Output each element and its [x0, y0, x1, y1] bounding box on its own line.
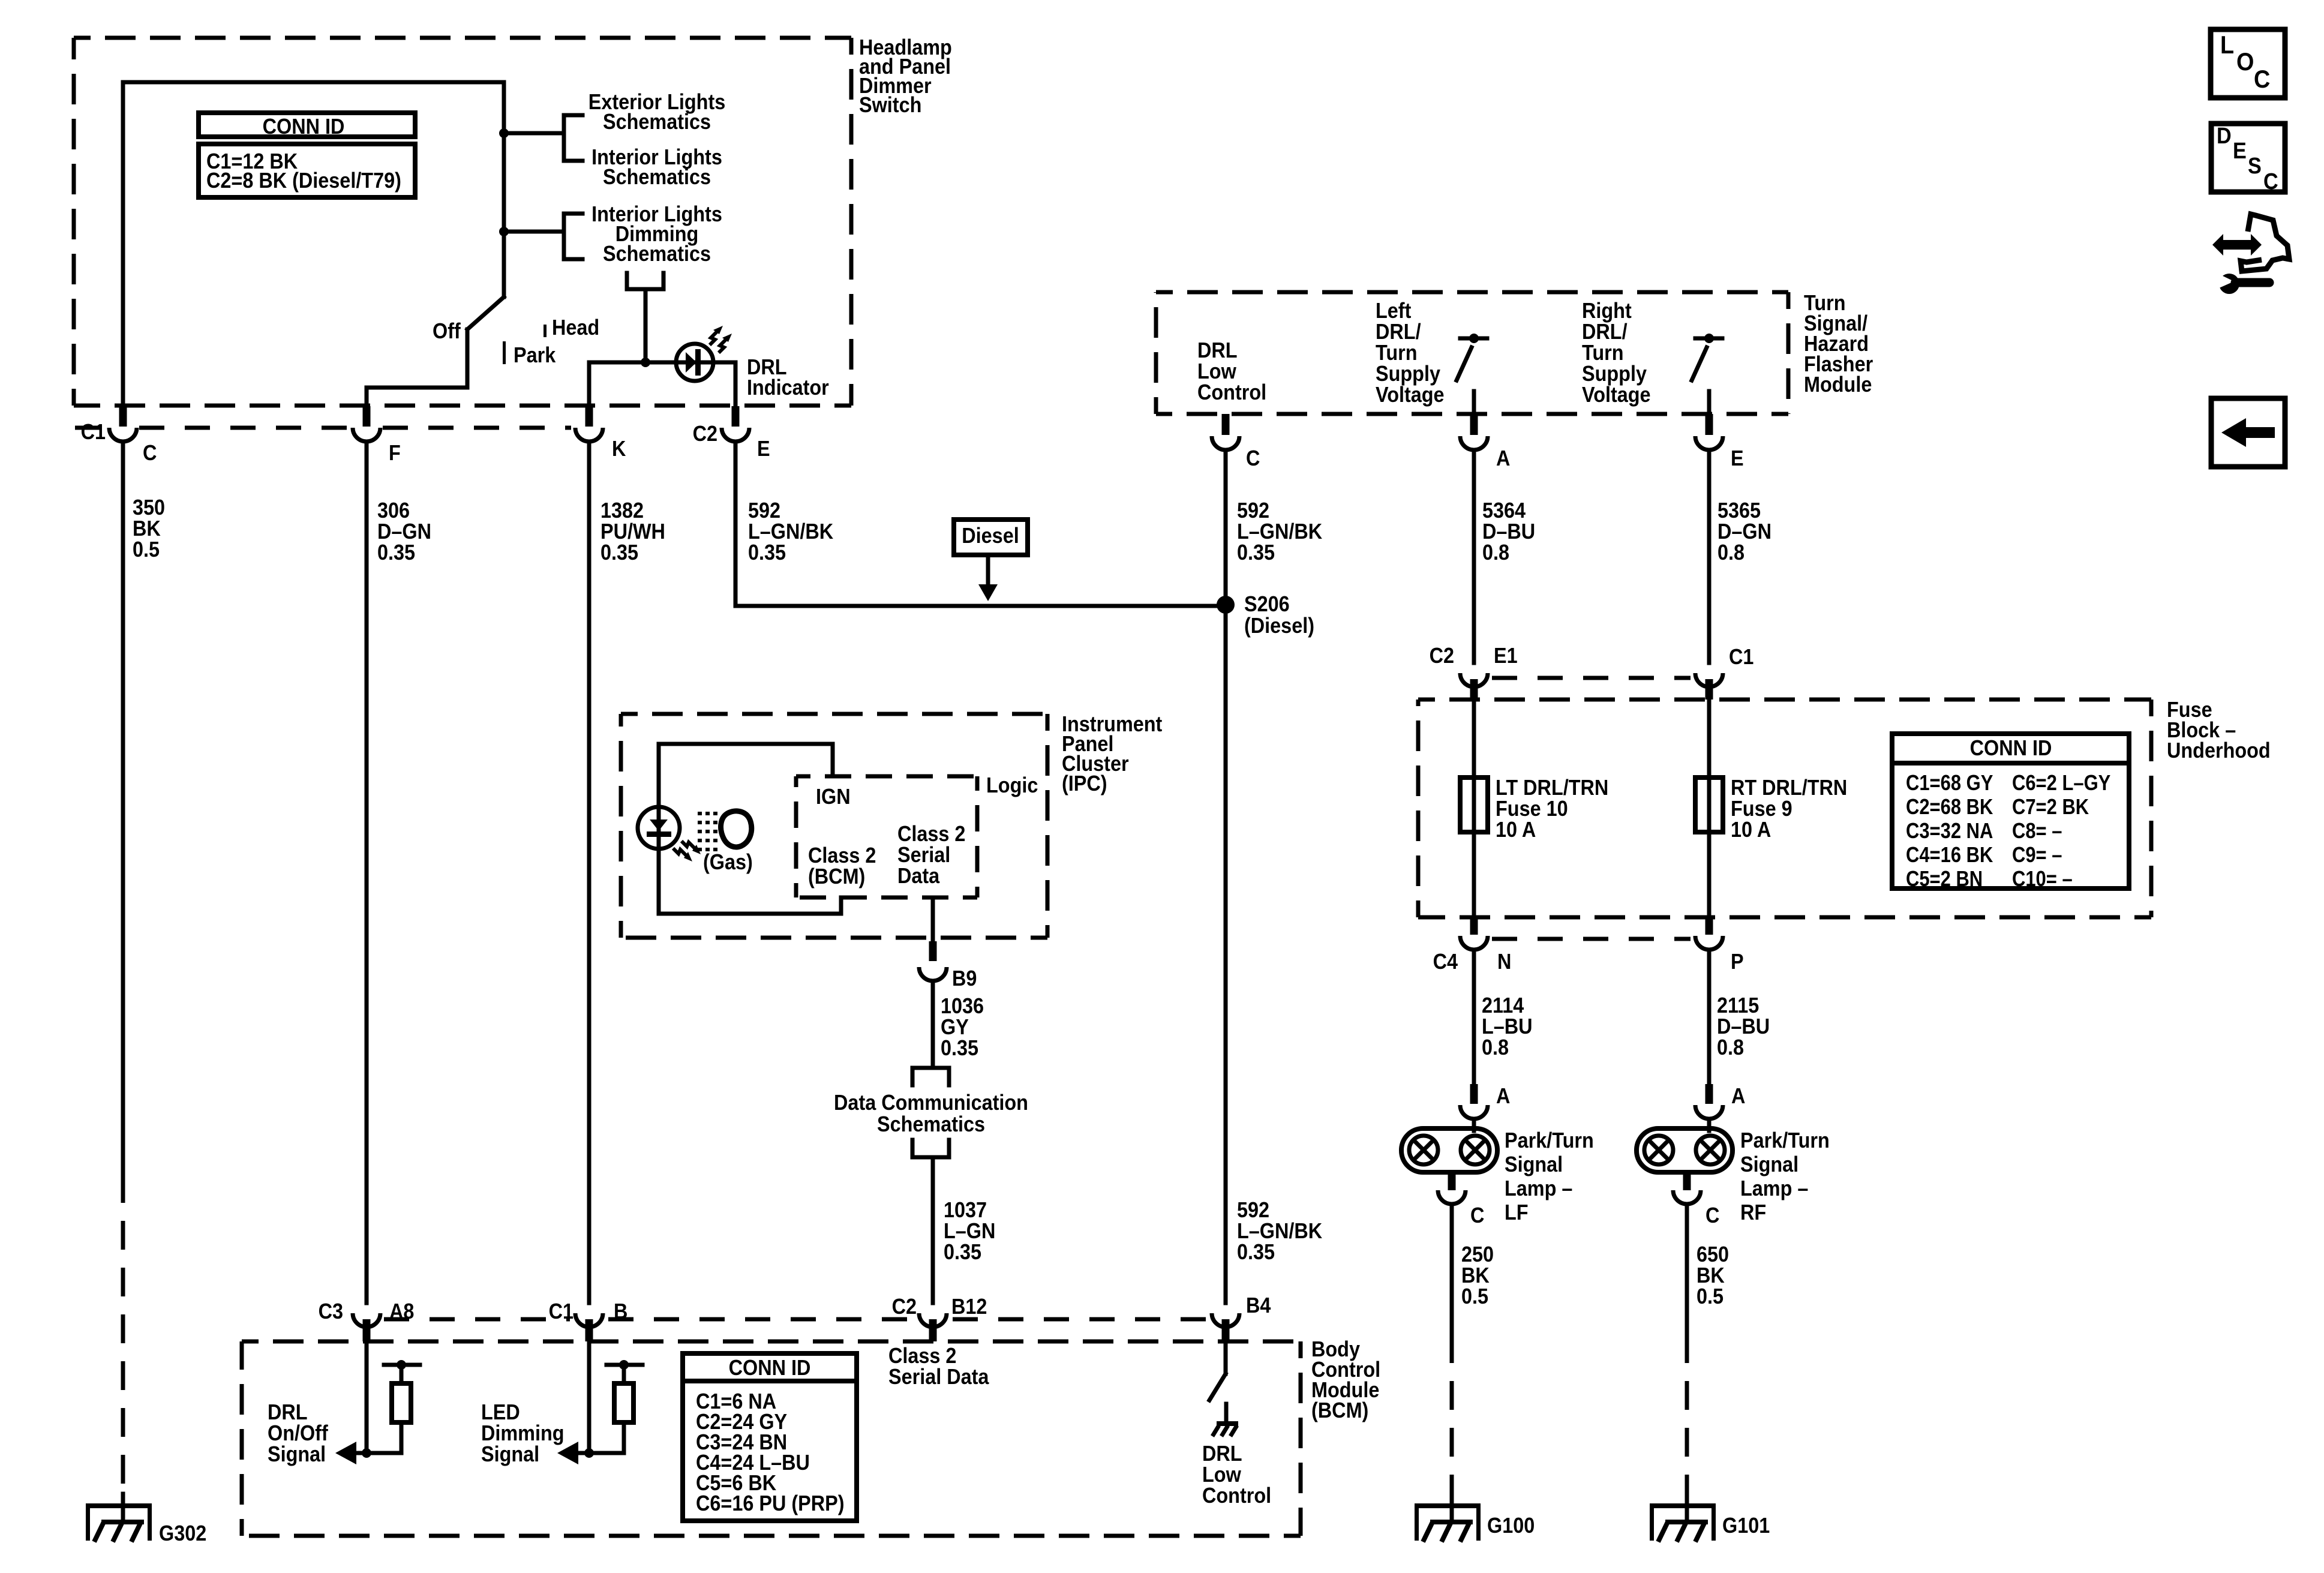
fuse LT DRL/TRN Fuse 10 — [1472, 778, 1476, 832]
svg-text:Supply: Supply — [1376, 362, 1440, 386]
svg-text:C6=2 L–GY: C6=2 L–GY — [2012, 772, 2110, 795]
svg-text:RF: RF — [1740, 1200, 1766, 1224]
wire Class2 BCM drop — [839, 897, 843, 914]
Diesel arrow — [986, 555, 990, 583]
IPC Logic box — [796, 775, 977, 779]
svg-text:Low: Low — [1202, 1463, 1241, 1487]
chassis ground ref (BCM) — [1224, 1404, 1229, 1422]
svg-text:DRL/: DRL/ — [1376, 320, 1421, 344]
svg-text:G101: G101 — [1722, 1514, 1770, 1538]
svg-text:Module: Module — [1804, 373, 1872, 397]
svg-text:Lamp –: Lamp – — [1505, 1176, 1572, 1200]
svg-text:D–BU: D–BU — [1717, 1014, 1770, 1038]
svg-text:0.5: 0.5 — [1697, 1284, 1724, 1308]
inline connector dashed line N-P — [1492, 937, 1691, 941]
svg-text:0.8: 0.8 — [1718, 541, 1744, 565]
Park/Turn Signal Lamp - LF — [1401, 1128, 1497, 1172]
connector C1 (fuse) — [1695, 673, 1723, 687]
wire: F drop to box edge — [365, 388, 369, 406]
svg-text:Switch: Switch — [859, 93, 921, 117]
ground G101 — [1685, 1494, 1689, 1522]
wire 592 DRL low control — [1224, 454, 1228, 1303]
wire: off contact drop — [466, 329, 470, 388]
svg-text:C: C — [2254, 65, 2270, 93]
svg-text:C: C — [143, 441, 157, 465]
headlamp lens icon — [721, 811, 752, 847]
svg-text:0.35: 0.35 — [944, 1240, 981, 1264]
connector pin F — [363, 406, 371, 427]
wire LED dimming input — [587, 1341, 591, 1453]
svg-text:Schematics: Schematics — [877, 1112, 985, 1136]
svg-text:E: E — [1731, 446, 1744, 470]
connector C4 pin N — [1470, 917, 1478, 935]
wire 650 BK dashed — [1685, 1334, 1689, 1497]
svg-text:E: E — [2233, 137, 2247, 163]
svg-text:On/Off: On/Off — [268, 1421, 328, 1445]
wire: switch feed vertical — [502, 82, 506, 297]
svg-text:C2: C2 — [892, 1295, 917, 1319]
svg-text:Dimming: Dimming — [481, 1421, 565, 1445]
svg-text:LT DRL/TRN: LT DRL/TRN — [1496, 776, 1608, 800]
svg-text:A: A — [1731, 1084, 1745, 1108]
svg-text:Schematics: Schematics — [603, 110, 711, 134]
svg-text:RT DRL/TRN: RT DRL/TRN — [1731, 776, 1847, 800]
wire cup to lamp RF — [1707, 1122, 1712, 1131]
switch: left DRL/turn supply — [1460, 337, 1487, 341]
svg-text:F: F — [389, 441, 401, 465]
wire 2115 D-BU — [1707, 953, 1712, 1084]
svg-text:0.5: 0.5 — [1461, 1284, 1488, 1308]
svg-text:Voltage: Voltage — [1582, 383, 1651, 407]
wire DRL on/off input — [365, 1341, 369, 1453]
svg-text:5365: 5365 — [1718, 499, 1761, 523]
ground G302 — [121, 1494, 125, 1522]
svg-text:C4=16 BK: C4=16 BK — [1906, 843, 1993, 867]
svg-text:BK: BK — [1697, 1263, 1725, 1287]
svg-text:592: 592 — [1237, 499, 1269, 523]
arrow DRL On/Off Signal — [335, 1442, 356, 1464]
connector C1 pin C — [119, 406, 127, 427]
svg-text:P: P — [1731, 950, 1744, 974]
connector pin A (flasher) — [1470, 414, 1478, 435]
connector C2 pin E — [732, 406, 740, 427]
LED telltale rays — [673, 848, 687, 856]
svg-text:N: N — [1497, 950, 1511, 974]
svg-text:250: 250 — [1461, 1242, 1494, 1266]
connector C2 pin E1 — [1460, 673, 1488, 687]
svg-text:0.35: 0.35 — [1237, 541, 1275, 565]
wire arrow row 1 — [354, 1451, 401, 1455]
svg-text:Underhood: Underhood — [2167, 739, 2271, 763]
arrow LED Dimming Signal — [557, 1442, 578, 1464]
svg-text:0.8: 0.8 — [1482, 1035, 1509, 1059]
svg-text:Turn: Turn — [1376, 341, 1418, 365]
svg-text:G302: G302 — [159, 1521, 206, 1545]
svg-text:D: D — [2217, 122, 2232, 148]
svg-text:K: K — [612, 437, 626, 461]
svg-text:Right: Right — [1582, 299, 1632, 323]
svg-text:Supply: Supply — [1582, 362, 1647, 386]
connector pin A (RF lamp) — [1706, 1084, 1713, 1104]
svg-text:C7=2 BK: C7=2 BK — [2012, 795, 2089, 819]
svg-text:(BCM): (BCM) — [808, 864, 865, 888]
wire IPC loop bottom — [659, 912, 841, 916]
connector pin B9 — [929, 941, 937, 961]
svg-text:Off: Off — [433, 319, 461, 343]
LED rays — [710, 331, 717, 345]
svg-text:Voltage: Voltage — [1376, 383, 1445, 407]
svg-text:592: 592 — [1237, 1198, 1269, 1222]
svg-text:Park/Turn: Park/Turn — [1505, 1128, 1594, 1152]
wire into LT fuse — [1472, 700, 1476, 778]
svg-text:0.35: 0.35 — [748, 541, 786, 565]
wire 650 BK — [1685, 1208, 1689, 1334]
connector pin K — [585, 406, 593, 427]
svg-text:C1=68 GY: C1=68 GY — [1906, 772, 1993, 795]
svg-text:Diesel: Diesel — [962, 524, 1019, 548]
wire arrow row 2 — [577, 1451, 624, 1455]
svg-text:0.35: 0.35 — [1237, 1240, 1275, 1264]
CONN ID table (headlamp switch) — [199, 113, 415, 137]
connector pin P — [1706, 917, 1713, 935]
svg-text:D–GN: D–GN — [1718, 520, 1771, 544]
resistor (DRL on/off) — [384, 1363, 420, 1367]
svg-text:LED: LED — [481, 1400, 520, 1424]
DESC icon — [2211, 124, 2285, 192]
node S206 splice — [1217, 596, 1235, 614]
off-page bracket top (data comm) — [912, 1066, 949, 1070]
svg-text:(Diesel): (Diesel) — [1244, 614, 1314, 638]
svg-text:350: 350 — [133, 496, 165, 520]
svg-text:IGN: IGN — [816, 785, 851, 809]
wire 250 BK — [1450, 1208, 1454, 1334]
Turn Signal/Hazard Flasher Module box — [1156, 290, 1788, 295]
switch: right DRL/turn supply — [1695, 337, 1722, 341]
CONN ID table (BCM) — [683, 1353, 857, 1521]
wire 350 BK dashed to ground — [121, 1174, 125, 1500]
wire 2114 L-BU — [1472, 953, 1476, 1084]
svg-text:L: L — [2220, 31, 2234, 59]
inline connector dashed line E1-C1 — [1492, 676, 1691, 680]
svg-text:5364: 5364 — [1482, 499, 1526, 523]
svg-text:BK: BK — [1461, 1263, 1490, 1287]
svg-text:Logic: Logic — [986, 773, 1038, 797]
svg-text:Fuse 9: Fuse 9 — [1731, 797, 1792, 821]
svg-text:1382: 1382 — [600, 499, 644, 523]
svg-text:C2=68 BK: C2=68 BK — [1906, 795, 1993, 819]
svg-text:B12: B12 — [951, 1295, 987, 1319]
wire 5365 D-GN — [1707, 454, 1712, 663]
svg-text:Signal: Signal — [481, 1442, 539, 1466]
svg-text:0.35: 0.35 — [600, 541, 638, 565]
svg-text:C8= –: C8= – — [2012, 819, 2062, 843]
bracket: interior dimming — [562, 214, 566, 259]
svg-text:B4: B4 — [1246, 1293, 1271, 1317]
svg-text:CONN ID: CONN ID — [729, 1356, 811, 1380]
svg-text:D–BU: D–BU — [1482, 520, 1535, 544]
svg-text:C3=32 NA: C3=32 NA — [1906, 819, 1993, 843]
svg-text:10 A: 10 A — [1496, 818, 1536, 842]
wire: bracket to DRL indicator row — [644, 289, 648, 362]
connector C1 pin B — [575, 1313, 603, 1327]
connector C2 pin B12 — [919, 1313, 947, 1327]
connector pin B4 — [1212, 1313, 1239, 1327]
svg-text:C5=2 BN: C5=2 BN — [1906, 867, 1983, 891]
wire: branch 2 horizontal — [504, 230, 564, 234]
svg-text:C2=8 BK (Diesel/T79): C2=8 BK (Diesel/T79) — [206, 169, 401, 193]
LOC icon — [2211, 29, 2285, 98]
svg-text:Indicator: Indicator — [747, 376, 829, 400]
svg-text:2115: 2115 — [1717, 993, 1759, 1017]
svg-text:C4: C4 — [1433, 950, 1458, 974]
svg-text:(BCM): (BCM) — [1311, 1398, 1368, 1422]
svg-text:L–GN/BK: L–GN/BK — [748, 520, 833, 544]
LED telltale (IPC) — [638, 807, 680, 849]
connector C3 pin A8 — [353, 1313, 380, 1327]
svg-text:Control: Control — [1197, 380, 1266, 404]
svg-text:Data: Data — [897, 864, 940, 888]
svg-text:C10= –: C10= – — [2012, 867, 2073, 891]
fuse RT DRL/TRN Fuse 9 — [1707, 778, 1712, 832]
off-page bracket from dimming schematics — [625, 273, 629, 289]
svg-text:2114: 2114 — [1482, 993, 1524, 1017]
wire below RT fuse — [1707, 832, 1712, 917]
wire: E drop to box edge — [734, 362, 738, 406]
svg-text:0.8: 0.8 — [1717, 1035, 1744, 1059]
switch position tick Head — [544, 325, 547, 337]
svg-text:O: O — [2236, 48, 2254, 76]
svg-text:S206: S206 — [1244, 592, 1290, 616]
svg-text:CONN ID: CONN ID — [263, 115, 345, 139]
svg-text:Park: Park — [514, 343, 556, 367]
wire 592 from E — [734, 445, 738, 606]
svg-text:592: 592 — [748, 499, 780, 523]
svg-text:E1: E1 — [1494, 644, 1518, 668]
svg-text:Signal: Signal — [1505, 1152, 1563, 1176]
svg-text:Low: Low — [1197, 359, 1236, 383]
back arrow icon — [2211, 398, 2285, 467]
svg-text:L–GN/BK: L–GN/BK — [1237, 1219, 1322, 1243]
svg-text:650: 650 — [1697, 1242, 1729, 1266]
svg-text:Left: Left — [1376, 299, 1411, 323]
svg-text:C1: C1 — [81, 420, 106, 444]
Instrument Panel Cluster (IPC) box — [621, 712, 1047, 716]
wire 350 BK — [121, 445, 125, 1174]
svg-text:C2: C2 — [1430, 644, 1454, 668]
svg-text:Signal: Signal — [268, 1442, 326, 1466]
LED DRL indicator — [676, 344, 713, 381]
wire Class 2 serial data out — [931, 897, 935, 939]
svg-text:DRL: DRL — [1202, 1442, 1242, 1466]
wire: K drop to box edge — [587, 362, 591, 406]
svg-text:A: A — [1496, 446, 1510, 470]
wire 306 D-GN — [365, 445, 369, 1303]
svg-text:Turn: Turn — [1582, 341, 1624, 365]
svg-text:Park/Turn: Park/Turn — [1740, 1128, 1830, 1152]
svg-text:B9: B9 — [952, 966, 977, 990]
switch position tick Park — [503, 341, 506, 364]
svg-text:C1: C1 — [1729, 645, 1753, 669]
svg-text:DRL/: DRL/ — [1582, 320, 1628, 344]
svg-text:Data Communication: Data Communication — [834, 1091, 1028, 1115]
ground G100 — [1450, 1494, 1454, 1522]
wire: DRL indicator row horizontal — [589, 361, 735, 365]
svg-text:Schematics: Schematics — [603, 165, 711, 189]
wire IGN drop — [831, 744, 835, 776]
svg-text:Class 2: Class 2 — [888, 1344, 956, 1368]
svg-text:Signal: Signal — [1740, 1152, 1798, 1176]
svg-text:Serial: Serial — [897, 843, 950, 867]
node: junction to exterior-lights branch — [499, 128, 509, 138]
svg-text:Schematics: Schematics — [603, 242, 711, 266]
jump-to icon double arrow — [2212, 234, 2262, 256]
svg-text:Serial Data: Serial Data — [888, 1365, 989, 1389]
svg-text:G100: G100 — [1487, 1514, 1535, 1538]
svg-text:1037: 1037 — [944, 1198, 987, 1222]
svg-text:C9= –: C9= – — [2012, 843, 2062, 867]
svg-text:Head: Head — [552, 316, 599, 340]
wire LED vertical — [657, 744, 661, 914]
svg-text:10 A: 10 A — [1731, 818, 1771, 842]
wire 5364 D-BU — [1472, 454, 1476, 663]
svg-text:C1: C1 — [549, 1299, 574, 1323]
wire IPC loop top — [659, 742, 833, 746]
bracket: exterior/interior lights — [562, 115, 566, 161]
off-page bracket bottom (data comm) — [911, 1140, 915, 1157]
svg-text:GY: GY — [941, 1015, 969, 1039]
connector pin A (LF lamp) — [1470, 1084, 1478, 1104]
wire: C1-C drop inside switch — [121, 82, 125, 406]
Body Control Module (BCM) box — [242, 1340, 1301, 1344]
resistor (LED dimming) — [606, 1363, 642, 1367]
svg-text:CONN ID: CONN ID — [1970, 736, 2052, 760]
svg-text:PU/WH: PU/WH — [600, 520, 665, 544]
svg-text:BK: BK — [133, 517, 161, 541]
svg-text:A8: A8 — [389, 1299, 414, 1323]
wire 1036 GY — [931, 984, 935, 1068]
svg-text:(IPC): (IPC) — [1062, 772, 1107, 795]
Diesel callout box — [954, 520, 1028, 555]
svg-text:C: C — [1470, 1203, 1484, 1227]
wire 1382 PU/WH — [587, 445, 591, 1303]
svg-text:L–BU: L–BU — [1482, 1014, 1533, 1038]
svg-text:0.35: 0.35 — [941, 1036, 978, 1060]
headlamp beam dots — [698, 812, 720, 815]
wire: horizontal to F — [367, 386, 467, 390]
wire: feed top horizontal — [123, 80, 504, 85]
svg-text:D–GN: D–GN — [377, 520, 431, 544]
node: junction to dimming branch — [499, 227, 509, 236]
svg-text:1036: 1036 — [941, 994, 984, 1018]
wire below LT fuse — [1472, 832, 1476, 917]
svg-text:DRL: DRL — [268, 1400, 308, 1424]
connector pin E (flasher) — [1706, 414, 1713, 435]
svg-text:C6=16 PU (PRP): C6=16 PU (PRP) — [696, 1491, 844, 1515]
wire into RT fuse — [1707, 700, 1712, 778]
svg-text:C: C — [2263, 168, 2278, 194]
svg-text:L–GN/BK: L–GN/BK — [1237, 520, 1322, 544]
svg-text:Control: Control — [1202, 1484, 1271, 1508]
Headlamp and Panel Dimmer Switch module box — [74, 36, 851, 40]
inline connector dashed line — [75, 426, 107, 430]
wire cup to lamp LF — [1472, 1122, 1476, 1131]
svg-text:C: C — [1706, 1203, 1719, 1227]
svg-text:C2: C2 — [693, 422, 717, 446]
svg-text:LF: LF — [1505, 1200, 1529, 1224]
connector pin C (flasher) — [1222, 414, 1230, 435]
svg-text:Class 2: Class 2 — [897, 822, 965, 846]
inline connector dashed line BCM — [384, 1317, 570, 1322]
svg-text:306: 306 — [377, 499, 410, 523]
svg-text:0.8: 0.8 — [1482, 541, 1509, 565]
svg-text:E: E — [757, 437, 770, 461]
svg-text:DRL: DRL — [1197, 338, 1238, 362]
svg-text:Lamp –: Lamp – — [1740, 1176, 1808, 1200]
svg-text:(Gas): (Gas) — [703, 850, 753, 874]
svg-text:C: C — [1246, 446, 1260, 470]
wire 1037 L-GN — [931, 1157, 935, 1303]
wire 250 BK dashed — [1450, 1334, 1454, 1497]
svg-text:C3: C3 — [319, 1299, 343, 1323]
node: junction at DRL indicator — [641, 358, 650, 367]
svg-text:0.35: 0.35 — [377, 541, 415, 565]
svg-text:B: B — [614, 1299, 627, 1323]
switch blade (Off position) — [467, 297, 504, 329]
jump-to icon wrench — [2219, 274, 2239, 294]
svg-text:Fuse 10: Fuse 10 — [1496, 797, 1568, 821]
svg-text:0.5: 0.5 — [133, 538, 160, 562]
Park/Turn Signal Lamp - RF — [1637, 1128, 1733, 1172]
jump-to icon outline — [2241, 214, 2289, 271]
svg-text:Class 2: Class 2 — [808, 843, 876, 867]
wire 592 horizontal to S206 — [735, 604, 1226, 608]
svg-text:A: A — [1496, 1084, 1510, 1108]
connector pin C (LF lamp) — [1448, 1172, 1456, 1190]
switch DRL low control (BCM) — [1224, 1341, 1228, 1374]
Fuse Block - Underhood box — [1418, 698, 2151, 702]
svg-text:S: S — [2248, 152, 2262, 178]
wire: branch 1 horizontal — [504, 131, 564, 136]
svg-text:L–GN: L–GN — [944, 1219, 995, 1243]
CONN ID table (fuse block) — [1892, 734, 2129, 888]
connector pin C (RF lamp) — [1683, 1172, 1691, 1190]
